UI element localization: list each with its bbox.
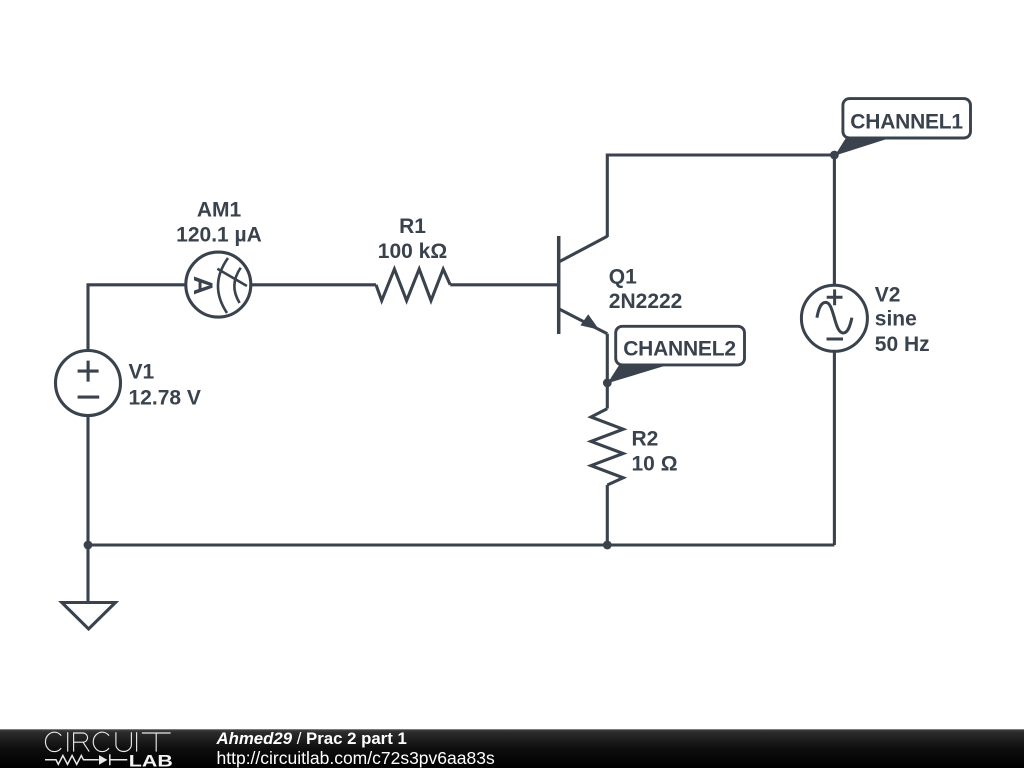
probe flag CHANNEL1 (835, 99, 971, 156)
node junction dot bottom-left (84, 541, 93, 550)
svg-text:R1: R1 (399, 215, 426, 238)
ammeter AM1 (186, 252, 251, 317)
svg-text:LAB: LAB (129, 751, 173, 768)
svg-text:V2: V2 (875, 283, 901, 306)
svg-text:12.78 V: 12.78 V (129, 386, 201, 409)
svg-text:AM1: AM1 (197, 199, 242, 222)
wire V1 bottom down (86, 415, 89, 545)
resistor R2 (591, 409, 623, 485)
wire node down to V2 (833, 155, 836, 286)
logo resistor-diode squiggle (45, 754, 127, 765)
svg-text:50 Hz: 50 Hz (875, 333, 930, 356)
svg-text:CHANNEL1: CHANNEL1 (850, 110, 963, 133)
wire V2 bottom to rail (833, 351, 836, 545)
node junction dot R2 bottom rail (603, 541, 612, 550)
svg-text:10 Ω: 10 Ω (632, 453, 678, 476)
wire Q1 emitter down to node (606, 334, 609, 409)
wire R2 bottom to rail (606, 485, 609, 545)
node junction dot emitter (603, 379, 612, 388)
footer bar (0, 729, 1024, 768)
wire V1 top to ammeter (88, 285, 186, 351)
ground (62, 545, 116, 629)
svg-text:Ahmed29 / Prac 2 part 1: Ahmed29 / Prac 2 part 1 (216, 729, 407, 748)
logo CIRCUIT wordmark (45, 732, 170, 751)
probe flag CHANNEL2 (608, 326, 745, 383)
node junction dot top right (830, 151, 839, 160)
wire ammeter to R1 (251, 283, 376, 286)
voltage source V2 (801, 285, 867, 351)
svg-text:120.1 µA: 120.1 µA (176, 224, 262, 247)
svg-text:100 kΩ: 100 kΩ (378, 240, 447, 263)
svg-text:sine: sine (875, 308, 917, 331)
svg-text:V1: V1 (129, 361, 155, 384)
transistor Q1 (559, 236, 608, 334)
logo diode triangle (99, 755, 107, 765)
voltage source V1 (56, 351, 121, 416)
resistor R1 (376, 269, 450, 301)
svg-text:Q1: Q1 (609, 266, 637, 289)
svg-text:http://circuitlab.com/c72s3pv6: http://circuitlab.com/c72s3pv6aa83s (217, 748, 495, 768)
wire Q1 collector up and top horizontal to node (607, 155, 834, 237)
svg-text:CHANNEL2: CHANNEL2 (623, 338, 736, 361)
svg-text:A: A (188, 276, 218, 295)
svg-text:2N2222: 2N2222 (609, 290, 683, 313)
wire R1 to Q1 base (450, 283, 557, 286)
svg-text:R2: R2 (632, 428, 659, 451)
wire bottom rail (88, 543, 834, 546)
